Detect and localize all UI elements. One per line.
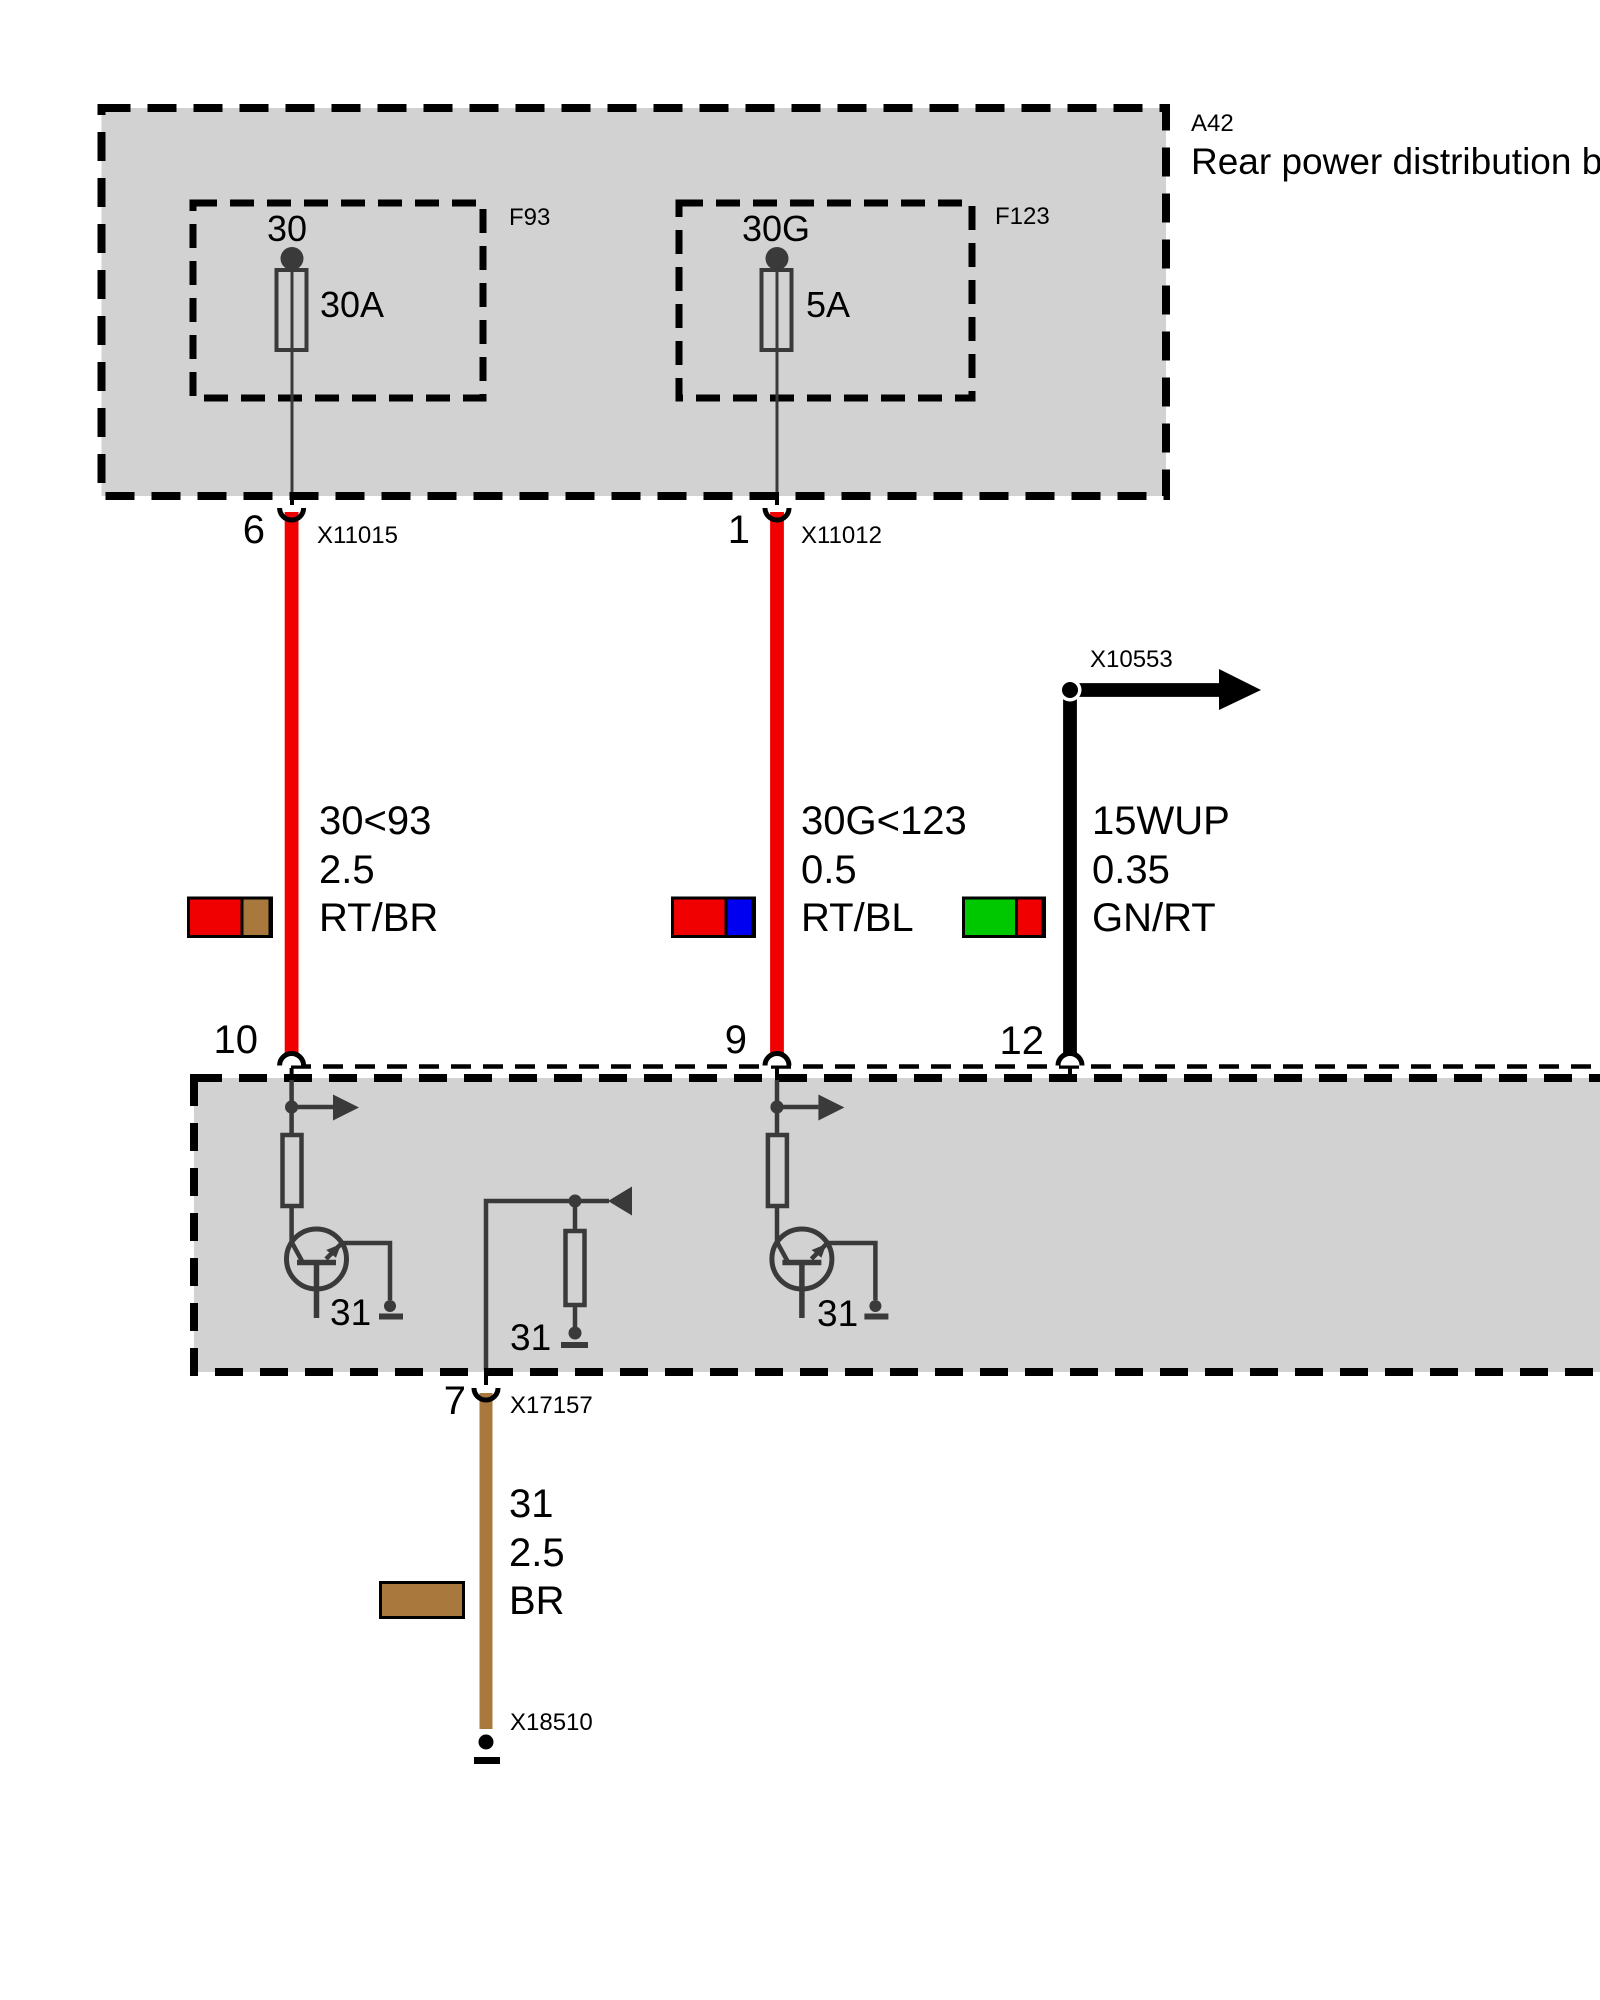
connector strip dashed line bbox=[291, 1064, 1600, 1069]
wire 31 brown bbox=[480, 1393, 493, 1729]
emitter wire to ground bbox=[827, 1243, 875, 1300]
svg-text:9: 9 bbox=[725, 1018, 747, 1062]
ground 31 symbol bbox=[569, 1327, 582, 1340]
svg-text:X18510: X18510 bbox=[510, 1709, 593, 1736]
connector socket pin 9 bbox=[765, 1054, 789, 1066]
svg-text:30G: 30G bbox=[742, 208, 810, 249]
signal arrow right bbox=[777, 1105, 818, 1110]
junction X10553 node dot bbox=[1059, 679, 1082, 702]
resistor R2 bbox=[768, 1135, 787, 1206]
wire 15WUP black vertical bbox=[1063, 690, 1077, 1053]
svg-text:30A: 30A bbox=[320, 284, 384, 325]
colour swatch GN/RT bbox=[964, 898, 1045, 937]
svg-text:F123: F123 bbox=[995, 203, 1050, 230]
svg-text:15WUP: 15WUP bbox=[1092, 799, 1230, 843]
wire to transistor bbox=[775, 1206, 780, 1242]
svg-text:RT/BR: RT/BR bbox=[319, 896, 438, 940]
svg-text:0.35: 0.35 bbox=[1092, 848, 1170, 892]
wire to transistor bbox=[289, 1206, 294, 1242]
svg-text:12: 12 bbox=[1000, 1019, 1045, 1063]
wire through fuse F93 bbox=[291, 258, 294, 492]
wire to ground bbox=[573, 1305, 578, 1327]
resistor R1 bbox=[283, 1135, 302, 1206]
resistor R3 bbox=[566, 1231, 585, 1305]
connector socket X11015 pin 6 bbox=[280, 508, 304, 520]
svg-text:6: 6 bbox=[243, 508, 265, 552]
fuse box F123 bbox=[679, 203, 972, 398]
fuse F123 body bbox=[762, 270, 792, 350]
wire pin7 vertical and horizontal to junction bbox=[486, 1201, 609, 1370]
svg-text:GN/RT: GN/RT bbox=[1092, 896, 1216, 940]
signal arrow right bbox=[292, 1105, 333, 1110]
wire 30G<123 red bbox=[770, 512, 784, 1053]
svg-text:0.5: 0.5 bbox=[801, 848, 857, 892]
terminal 30 node dot bbox=[281, 247, 304, 270]
control unit A42 Rear power distribution box bbox=[102, 108, 1167, 496]
svg-text:F93: F93 bbox=[509, 204, 550, 231]
wire through fuse F123 bbox=[776, 258, 779, 492]
svg-text:30: 30 bbox=[267, 208, 307, 249]
pin 12 stub bbox=[1068, 1068, 1072, 1078]
pin 10 stub bbox=[290, 1068, 294, 1082]
junction dot bbox=[285, 1100, 298, 1113]
fuse F93 body bbox=[277, 270, 307, 350]
wire pin10 down bbox=[289, 1080, 294, 1135]
fuse box F93 bbox=[193, 203, 483, 398]
arrow left bbox=[608, 1187, 632, 1216]
ground 31 symbol bbox=[384, 1300, 396, 1312]
svg-text:X17157: X17157 bbox=[510, 1392, 593, 1419]
svg-text:RT/BL: RT/BL bbox=[801, 896, 914, 940]
svg-text:31: 31 bbox=[510, 1317, 551, 1358]
svg-text:2.5: 2.5 bbox=[509, 1531, 565, 1575]
colour swatch RT/BL bbox=[673, 898, 755, 937]
wire pin9 down bbox=[775, 1080, 780, 1135]
svg-text:A42: A42 bbox=[1191, 110, 1234, 137]
svg-text:5A: 5A bbox=[806, 284, 850, 325]
emitter wire to ground bbox=[342, 1243, 390, 1300]
svg-text:Rear power distribution box: Rear power distribution box bbox=[1191, 141, 1600, 182]
svg-text:31: 31 bbox=[509, 1482, 554, 1526]
svg-text:X11015: X11015 bbox=[317, 522, 398, 549]
pin 6 stub bbox=[290, 492, 294, 505]
svg-text:2.5: 2.5 bbox=[319, 848, 375, 892]
wire down to resistor bbox=[573, 1201, 578, 1231]
svg-text:10: 10 bbox=[214, 1018, 259, 1062]
pin 9 stub bbox=[775, 1068, 779, 1082]
svg-text:7: 7 bbox=[444, 1379, 466, 1423]
junction dot bbox=[770, 1100, 783, 1113]
pin 7 internal circuit bbox=[486, 1187, 632, 1371]
control module lower box bbox=[194, 1078, 1600, 1372]
pin 7 stub bbox=[484, 1368, 488, 1385]
svg-text:31: 31 bbox=[817, 1293, 858, 1334]
pin 1 stub bbox=[775, 492, 779, 505]
svg-text:30G<123: 30G<123 bbox=[801, 799, 967, 843]
connector socket pin 10 bbox=[280, 1054, 304, 1066]
colour swatch BR bbox=[381, 1583, 464, 1618]
svg-text:X11012: X11012 bbox=[801, 522, 882, 549]
connector socket X17157 pin 7 bbox=[474, 1388, 498, 1400]
connector socket pin 12 bbox=[1058, 1054, 1082, 1066]
svg-text:31: 31 bbox=[330, 1292, 371, 1333]
wire 15WUP to X10553 arrow right bbox=[1070, 683, 1219, 697]
connector socket X11012 pin 1 bbox=[765, 508, 789, 520]
pin 9 internal circuit bbox=[768, 1068, 889, 1318]
terminal 30G node dot bbox=[766, 247, 789, 270]
svg-text:BR: BR bbox=[509, 1579, 565, 1623]
svg-text:30<93: 30<93 bbox=[319, 799, 431, 843]
ground X18510 symbol bbox=[479, 1735, 494, 1750]
junction dot bbox=[569, 1195, 582, 1208]
ground 31 symbol bbox=[869, 1300, 881, 1312]
svg-text:X10553: X10553 bbox=[1090, 646, 1173, 673]
pin 10 internal circuit bbox=[283, 1068, 404, 1318]
svg-text:1: 1 bbox=[728, 508, 750, 552]
transistor Q2 bbox=[772, 1229, 832, 1289]
wire 30<93 red bbox=[285, 512, 299, 1053]
transistor Q1 bbox=[287, 1229, 347, 1289]
colour swatch RT/BR bbox=[189, 898, 272, 937]
